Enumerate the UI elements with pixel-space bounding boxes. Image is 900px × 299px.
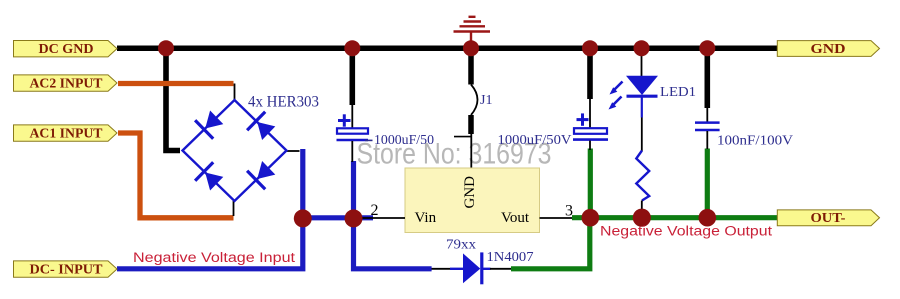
flag label DC GND <box>14 41 118 57</box>
pin wire 2 <box>359 217 405 219</box>
flag label AC1 INPUT <box>14 125 118 141</box>
bridge rectifier diamond <box>183 100 287 201</box>
resistor R1 <box>636 151 649 201</box>
svg-text:1N4007: 1N4007 <box>487 250 534 265</box>
svg-text:Negative Voltage Output: Negative Voltage Output <box>600 224 772 239</box>
bridge pin stub bottom <box>233 201 235 216</box>
bridge pin stub top <box>234 84 236 101</box>
wire: blue between junctions <box>298 215 373 220</box>
bridge pin stub right <box>286 150 300 152</box>
flag label OUT- <box>777 210 879 226</box>
wire: green up to C3 <box>705 149 710 219</box>
flag label AC2 INPUT <box>14 75 118 91</box>
svg-text:OUT-: OUT- <box>811 210 846 225</box>
svg-text:4x HER303: 4x HER303 <box>248 94 319 111</box>
junction: bus / C3 <box>699 40 715 56</box>
wire: blue DC- input net <box>117 149 303 269</box>
diode D2 1N4007 <box>432 250 534 284</box>
wire: top GND bus <box>117 45 777 51</box>
svg-text:GND: GND <box>462 176 478 209</box>
regulator U1 79xx box <box>405 168 540 233</box>
junction: DC- node / bridge output <box>294 209 312 227</box>
diode D-LL (bridge) <box>195 162 223 190</box>
junction: OUT- node / C2 <box>582 209 600 227</box>
svg-text:3: 3 <box>565 203 573 220</box>
earth ground symbol <box>454 17 491 46</box>
capacitor C1 1000uF/50 <box>337 48 435 162</box>
wire: black leg from bus to bridge left corner <box>166 46 180 151</box>
svg-text:GND: GND <box>811 41 846 56</box>
capacitor C3 100nF/100V <box>695 48 793 149</box>
wire: blue up to C1 <box>351 161 356 218</box>
svg-text:Vout: Vout <box>501 210 530 226</box>
flag label GND <box>777 41 879 57</box>
wire: AC1 orange <box>118 133 234 218</box>
svg-text:Vin: Vin <box>415 210 437 226</box>
LED arrow 1 <box>614 82 623 91</box>
pin wire 3 <box>540 217 577 219</box>
svg-text:AC1 INPUT: AC1 INPUT <box>30 125 103 140</box>
wire: blue down to diode 1N4007 <box>354 215 432 269</box>
svg-text:2: 2 <box>371 202 379 219</box>
LED1 <box>609 48 697 118</box>
junction: bus / C1 <box>344 40 360 56</box>
svg-text:1000uF/50: 1000uF/50 <box>374 132 434 147</box>
svg-text:DC GND: DC GND <box>39 41 94 56</box>
svg-text:Negative Voltage Input: Negative Voltage Input <box>133 250 295 265</box>
LED arrow 2 <box>613 97 622 106</box>
junction: OUT- node / C3 <box>699 209 717 227</box>
diode D-UL (bridge) <box>195 111 223 139</box>
jumper J1 <box>454 48 492 168</box>
wire: AC2 orange <box>118 81 234 86</box>
junction: DC- node / C1 <box>345 209 363 227</box>
junction: bus / C2 <box>582 40 598 56</box>
capacitor C2 1000uF/50V <box>498 48 609 150</box>
svg-text:DC- INPUT: DC- INPUT <box>30 261 103 276</box>
wire: green up to C2 <box>588 149 593 219</box>
wire: green output row <box>572 215 777 220</box>
wire: resistor to output row <box>641 201 643 211</box>
junction: bus / bridge leg <box>158 40 174 56</box>
svg-text:AC2 INPUT: AC2 INPUT <box>30 75 103 90</box>
junction: bus / J1 and earth <box>463 40 479 56</box>
diode D-UR (bridge) <box>247 112 275 140</box>
wire: green from diode up to output row <box>511 218 590 269</box>
svg-text:79xx: 79xx <box>446 238 476 253</box>
svg-text:J1: J1 <box>480 93 492 108</box>
svg-text:100nF/100V: 100nF/100V <box>717 133 793 148</box>
svg-text:LED1: LED1 <box>660 85 696 100</box>
junction: bus / LED1 <box>634 40 650 56</box>
svg-text:1000uF/50V: 1000uF/50V <box>498 132 572 147</box>
junction: OUT- node / R1 <box>633 209 651 227</box>
wire: LED to resistor <box>641 118 643 152</box>
flag label DC- INPUT <box>14 261 118 277</box>
diode D-LR (bridge) <box>247 161 275 189</box>
